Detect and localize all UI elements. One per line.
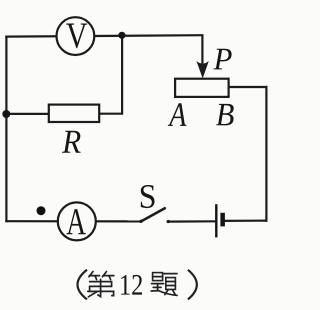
caption char 第 xyxy=(88,272,114,297)
caption char 题 xyxy=(151,273,177,296)
label R xyxy=(62,131,81,153)
wire right vertical xyxy=(265,87,267,221)
dot marker (bold point above-left of ammeter) xyxy=(37,206,46,215)
wire battery to right corner xyxy=(225,220,267,222)
wire pot right lead xyxy=(229,86,267,88)
label P xyxy=(213,49,231,70)
wire resistor left lead xyxy=(6,113,48,115)
wire bottom (left corner to switch pivot) xyxy=(6,220,141,222)
wire top (left corner to wiper corner) xyxy=(6,35,202,36)
wire left vertical xyxy=(5,37,7,222)
voltmeter V (circle with letter V) xyxy=(57,17,95,55)
caption (第 12 题) xyxy=(78,270,197,300)
label S xyxy=(141,185,155,208)
resistor R (rectangle body) xyxy=(49,105,99,122)
caption left paren xyxy=(78,270,88,300)
node J1: junction dot on top wire xyxy=(118,32,125,39)
label B (pot right terminal) xyxy=(216,104,234,125)
label A (pot left terminal) xyxy=(168,103,187,126)
switch S (lever with pivot and contact) xyxy=(139,208,170,223)
ammeter A (circle with letter A) xyxy=(58,202,96,240)
caption digits 12 xyxy=(121,275,130,295)
caption right paren xyxy=(188,270,197,300)
wire mid vertical (top junction down to resistor right lead) xyxy=(100,35,123,114)
wiper wire and arrow (slider P of rheostat) xyxy=(196,35,208,78)
battery (long thin plate and short thick plate) xyxy=(216,204,225,237)
potentiometer (rheostat body rectangle) xyxy=(175,79,229,97)
wire switch to battery xyxy=(168,220,216,223)
node J2: junction dot on left wire at resistor lead xyxy=(2,110,10,118)
